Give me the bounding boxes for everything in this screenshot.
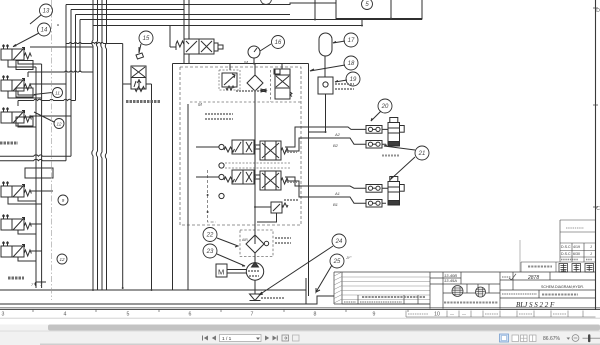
svg-text:D.S.C: D.S.C: [561, 252, 571, 256]
svg-text:19: 19: [350, 77, 357, 83]
svg-text:J: J: [590, 245, 592, 249]
svg-text:2878: 2878: [527, 275, 539, 281]
svg-text:D: D: [596, 8, 600, 14]
svg-text:B2: B2: [333, 143, 339, 148]
svg-text:B1: B1: [333, 202, 338, 207]
svg-text:3: 3: [2, 312, 5, 318]
svg-text:21: 21: [418, 151, 426, 157]
svg-text:17: 17: [348, 38, 355, 44]
svg-text:22: 22: [206, 233, 214, 239]
svg-text:10: 10: [434, 312, 440, 318]
svg-text:15: 15: [143, 36, 150, 42]
svg-text:13-45A: 13-45A: [444, 278, 457, 283]
svg-text:13: 13: [43, 9, 50, 15]
svg-text:SCHEM.DIAGRAM;HYDR.: SCHEM.DIAGRAM;HYDR.: [541, 285, 584, 289]
svg-text:J: J: [590, 252, 592, 256]
svg-text:20: 20: [381, 104, 389, 110]
svg-text:12: 12: [59, 257, 65, 262]
svg-text:86.67%: 86.67%: [543, 336, 561, 342]
svg-text:M: M: [244, 60, 248, 65]
svg-text:14: 14: [41, 28, 48, 34]
svg-text:9: 9: [373, 312, 376, 318]
svg-text:M: M: [218, 268, 224, 277]
svg-text:JY°: JY°: [345, 256, 352, 260]
svg-text:4: 4: [64, 312, 67, 318]
svg-text:6: 6: [189, 312, 192, 318]
svg-text:12: 12: [56, 122, 62, 127]
svg-text:6/30: 6/30: [573, 252, 580, 256]
svg-text:—: —: [462, 312, 466, 317]
svg-text:M: M: [198, 102, 202, 107]
svg-text:4/19: 4/19: [573, 245, 580, 249]
svg-text:8: 8: [314, 312, 317, 318]
svg-text:A1: A1: [334, 191, 340, 196]
svg-text:24: 24: [335, 239, 343, 245]
svg-text:18: 18: [348, 61, 355, 67]
svg-text:D.S.C: D.S.C: [561, 245, 571, 249]
svg-text:BLJ S S 2 2 F: BLJ S S 2 2 F: [516, 301, 555, 309]
svg-text:11: 11: [55, 91, 60, 96]
svg-text:16: 16: [275, 40, 282, 46]
svg-text:23: 23: [206, 249, 214, 255]
svg-text:AIR: AIR: [242, 238, 248, 242]
svg-text:7: 7: [251, 312, 254, 318]
svg-text:1 / 1: 1 / 1: [222, 336, 232, 342]
svg-text:25: 25: [333, 259, 341, 265]
svg-text:5: 5: [127, 312, 130, 318]
svg-text:—: —: [450, 312, 454, 317]
svg-text:A2: A2: [334, 132, 341, 137]
svg-text:C: C: [596, 206, 600, 212]
